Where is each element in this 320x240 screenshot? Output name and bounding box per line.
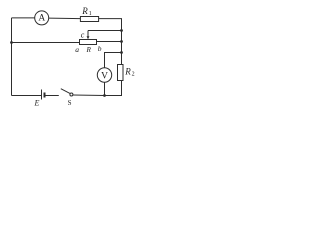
svg-text:2: 2 (132, 71, 135, 77)
svg-text:c: c (81, 31, 85, 40)
wire right rail c-junction to b-junction (121, 31, 123, 42)
junction at b-wire and right rail (120, 40, 123, 43)
label R1 (81, 6, 92, 17)
wire top left segment (12, 17, 35, 19)
label c (81, 31, 85, 40)
svg-text:a: a (75, 45, 79, 54)
rheostat R body (80, 40, 97, 45)
label S (68, 99, 72, 107)
wire voltmeter top stub (105, 53, 122, 68)
wire battery to switch (46, 95, 59, 97)
svg-text:E: E (34, 99, 40, 108)
label a (75, 45, 79, 54)
label E (34, 99, 40, 108)
svg-text:1: 1 (89, 11, 92, 17)
svg-text:V: V (101, 71, 108, 81)
junction at voltmeter bottom and bottom wire (103, 94, 106, 97)
resistor R1 (80, 17, 98, 22)
wire bottom left corner to battery (12, 95, 42, 97)
wire voltmeter bottom stub (104, 82, 106, 95)
junction at mid wire and left rail (10, 41, 13, 44)
junction at voltmeter top wire and right rail (120, 51, 123, 54)
wire right rail b-junction to voltmeter junction (121, 42, 123, 53)
resistor R2 (118, 65, 124, 81)
voltmeter V (97, 68, 111, 82)
ammeter A (35, 11, 49, 25)
wire bottom segment switch to corner (73, 94, 105, 97)
wire R1 to top-right corner down to node c junction (99, 19, 122, 31)
switch S contact circle (70, 93, 73, 96)
wire rheostat terminal b to right rail (97, 41, 122, 43)
rheostat wiper arrow (87, 31, 90, 40)
wire left rail (11, 18, 13, 96)
wire R2 bottom to bottom-right corner (105, 81, 122, 96)
label b (98, 44, 102, 53)
wire ammeter to R1 (49, 17, 81, 20)
svg-text:A: A (38, 14, 45, 24)
svg-text:R: R (86, 46, 92, 54)
svg-text:R: R (81, 6, 88, 16)
svg-text:S: S (68, 99, 72, 107)
svg-text:R: R (124, 66, 131, 76)
switch S blade (61, 89, 70, 94)
wire mid segment to rheostat terminal a (12, 42, 80, 44)
label R (86, 46, 92, 54)
wire right rail voltmeter junction to R2 top (121, 53, 123, 65)
label R2 (124, 66, 134, 77)
wire wiper c to right rail (88, 30, 122, 32)
junction at c-wire and right rail (120, 29, 123, 32)
svg-text:b: b (98, 44, 102, 53)
battery E (42, 90, 45, 100)
